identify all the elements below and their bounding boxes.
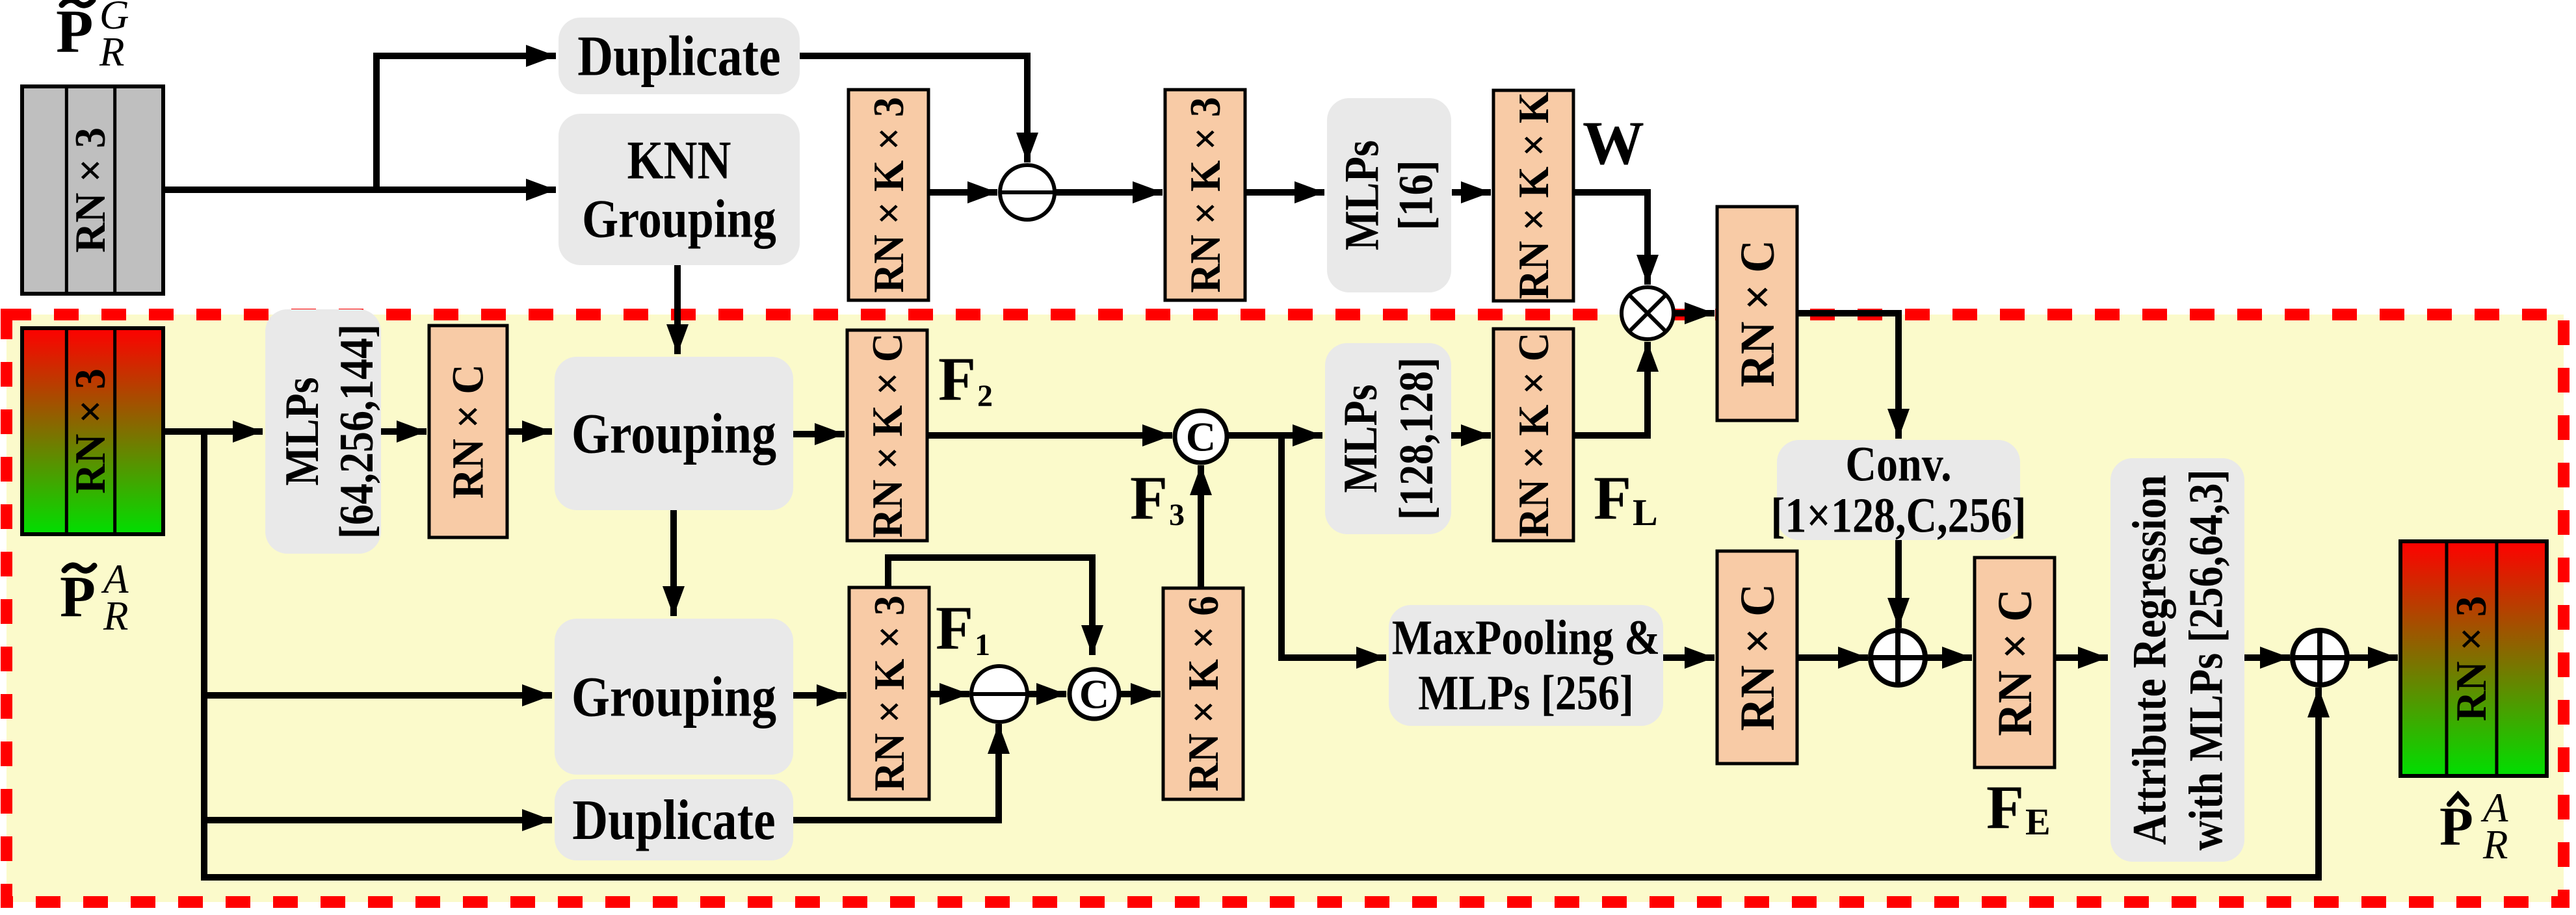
svg-text:RN × C: RN × C bbox=[1729, 240, 1784, 387]
svg-text:RN × 3: RN × 3 bbox=[2448, 596, 2496, 721]
svg-text:[1×128,C,256]: [1×128,C,256] bbox=[1770, 488, 2026, 543]
svg-text:3: 3 bbox=[1169, 498, 1185, 532]
svg-text:F: F bbox=[1130, 463, 1168, 532]
svg-text:C: C bbox=[1079, 671, 1109, 717]
svg-text:RN × K × 6: RN × K × 6 bbox=[1179, 596, 1228, 792]
svg-text:2: 2 bbox=[977, 379, 993, 413]
svg-text:P: P bbox=[60, 565, 96, 629]
svg-text:RN × K × K: RN × K × K bbox=[1510, 92, 1558, 300]
svg-text:[128,128]: [128,128] bbox=[1389, 357, 1443, 521]
svg-text:MaxPooling &: MaxPooling & bbox=[1392, 610, 1660, 665]
svg-text:F: F bbox=[936, 593, 973, 662]
svg-text:MLPs [256]: MLPs [256] bbox=[1418, 665, 1634, 721]
svg-text:R: R bbox=[2482, 822, 2508, 868]
svg-text:Conv.: Conv. bbox=[1845, 437, 1951, 492]
svg-text:with MLPs [256,64,3]: with MLPs [256,64,3] bbox=[2179, 469, 2232, 851]
svg-text:Duplicate: Duplicate bbox=[577, 24, 780, 87]
svg-text:R: R bbox=[99, 29, 124, 75]
svg-text:Attribute Regression: Attribute Regression bbox=[2122, 475, 2175, 845]
svg-text:RN × K × C: RN × K × C bbox=[863, 333, 912, 537]
svg-text:MLPs: MLPs bbox=[1334, 384, 1387, 493]
svg-text:F: F bbox=[1594, 463, 1631, 532]
svg-text:Grouping: Grouping bbox=[572, 665, 776, 728]
svg-text:Grouping: Grouping bbox=[572, 402, 776, 465]
svg-text:Duplicate: Duplicate bbox=[572, 788, 775, 851]
svg-text:MLPs: MLPs bbox=[275, 377, 328, 485]
svg-text:RN × K × 3: RN × K × 3 bbox=[865, 97, 913, 292]
svg-text:1: 1 bbox=[975, 628, 990, 662]
svg-text:RN × C: RN × C bbox=[1987, 589, 2042, 736]
svg-text:C: C bbox=[1186, 414, 1216, 460]
svg-text:F: F bbox=[938, 344, 976, 413]
svg-text:[16]: [16] bbox=[1389, 160, 1443, 230]
svg-text:RN × K × C: RN × K × C bbox=[1510, 332, 1558, 537]
svg-text:RN × K × 3: RN × K × 3 bbox=[865, 595, 913, 791]
svg-text:[64,256,144]: [64,256,144] bbox=[330, 324, 383, 539]
svg-text:L: L bbox=[1633, 491, 1658, 534]
svg-text:KNN: KNN bbox=[627, 130, 731, 190]
svg-text:MLPs: MLPs bbox=[1335, 140, 1389, 251]
svg-text:P: P bbox=[56, 0, 93, 66]
svg-text:W: W bbox=[1583, 109, 1644, 177]
svg-text:R: R bbox=[103, 593, 128, 639]
svg-text:E: E bbox=[2025, 801, 2051, 843]
svg-text:RN × K × 3: RN × K × 3 bbox=[1181, 97, 1229, 292]
svg-text:RN × C: RN × C bbox=[443, 364, 493, 498]
svg-text:RN × 3: RN × 3 bbox=[67, 368, 115, 494]
svg-text:F: F bbox=[1986, 773, 2024, 842]
svg-text:Grouping: Grouping bbox=[582, 188, 776, 248]
svg-text:RN × 3: RN × 3 bbox=[67, 127, 115, 253]
svg-text:RN × C: RN × C bbox=[1729, 584, 1784, 731]
